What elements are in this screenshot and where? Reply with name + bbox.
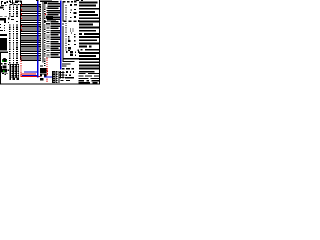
sheet border left lower xyxy=(0,52,1,85)
U1 top label xyxy=(40,0,52,2)
component J1 body xyxy=(0,6,4,8)
blue bus 2 xyxy=(60,0,61,69)
Q1 green pad right xyxy=(6,60,7,62)
left header pin dots xyxy=(9,4,10,5)
D2 green pad xyxy=(3,70,5,72)
X1 box top xyxy=(0,52,8,54)
Q1 green pad left xyxy=(2,60,3,62)
bus wires xyxy=(21,4,41,5)
D1 body xyxy=(3,66,7,69)
blue wire A xyxy=(24,71,38,72)
U3 body xyxy=(0,18,6,21)
right top text xyxy=(63,1,65,3)
U2 label blob xyxy=(46,16,53,19)
red net ticks upper xyxy=(21,5,22,7)
U1 left pin dots xyxy=(40,4,41,5)
sheet border right xyxy=(99,0,100,84)
U1 red tick xyxy=(45,13,46,15)
red dashed net vertical left xyxy=(20,56,21,57)
right marks col x74 xyxy=(74,36,75,37)
red wire 2 xyxy=(20,75,40,78)
U1 inner pin dots xyxy=(44,4,45,5)
U5 lower blob xyxy=(40,74,47,77)
red wire 1 xyxy=(20,72,36,75)
sheet border bottom xyxy=(0,83,100,84)
right text y51-56 xyxy=(66,51,68,53)
IC3 left border xyxy=(63,1,64,22)
U5 text block xyxy=(40,68,47,73)
dash x40 y65 xyxy=(40,65,43,66)
U4 top bar xyxy=(0,34,7,36)
D2 blob xyxy=(1,69,7,73)
bus rail top blob xyxy=(20,0,22,2)
left header labels xyxy=(11,16,14,17)
text labels top-left xyxy=(0,1,3,5)
U3 label blob xyxy=(0,15,3,18)
U5 sub blob xyxy=(40,78,43,81)
pin dot J1 xyxy=(2,9,5,10)
right sparse dots a xyxy=(70,4,72,6)
text row LED xyxy=(1,63,3,64)
U4 body block xyxy=(0,38,7,51)
blue bus 1 top tick xyxy=(36,0,38,1)
U1 left border xyxy=(42,1,43,63)
left small text xyxy=(4,27,5,28)
black dashes below U1 xyxy=(44,59,45,60)
right bar 1 xyxy=(63,58,79,59)
IC3 pin dots xyxy=(65,5,66,6)
D2 text squiggle xyxy=(2,73,4,74)
blue bus 1 xyxy=(37,1,38,78)
connector J2 block xyxy=(9,64,19,80)
right sparse dots b xyxy=(70,28,71,29)
U1 inner text xyxy=(46,7,47,10)
U5 red ticks xyxy=(47,68,48,69)
D1 lead xyxy=(0,66,3,70)
U3 pin dots xyxy=(0,24,1,25)
right dash y65 xyxy=(62,66,67,67)
bus left rail xyxy=(20,4,21,60)
right bar 2 xyxy=(63,61,74,62)
bottom-right texts xyxy=(62,68,65,69)
connector J3 block xyxy=(52,71,59,83)
right text y21 xyxy=(64,21,67,22)
blue wire B xyxy=(22,75,38,76)
blue wire C xyxy=(44,77,52,78)
right marks col x68 xyxy=(68,36,69,37)
right bar 3 xyxy=(62,63,71,64)
U1 right pin labels xyxy=(48,1,59,3)
notes text column xyxy=(76,0,79,1)
U1 text y21 xyxy=(44,21,46,22)
red dashed vertical mid xyxy=(46,58,47,59)
Q1 blob xyxy=(2,58,7,62)
D2 lower lead xyxy=(0,73,1,77)
